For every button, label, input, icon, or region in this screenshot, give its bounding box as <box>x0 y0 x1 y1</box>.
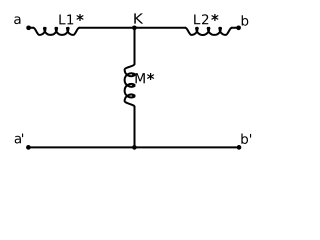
asterisk of M <box>147 73 154 80</box>
label b-prime <box>241 133 251 143</box>
label M <box>136 73 145 83</box>
label K <box>134 13 143 23</box>
asterisk of L2 <box>211 14 218 21</box>
inductor L1* <box>33 28 79 35</box>
terminal b dot <box>236 25 241 30</box>
terminal a dot <box>26 25 31 30</box>
wire top-left stub <box>29 27 34 29</box>
node K junction dot <box>132 25 137 30</box>
asterisk of L1 <box>76 14 83 21</box>
label a-prime <box>15 133 23 143</box>
label L1 <box>59 15 73 25</box>
label b <box>242 15 249 25</box>
label a <box>14 16 20 24</box>
terminal a' dot <box>26 145 31 150</box>
terminal b' dot <box>237 145 242 150</box>
wire top middle (L1 to K to L2) <box>79 27 185 29</box>
inductor L2* <box>185 28 232 35</box>
inductor M* <box>125 64 135 107</box>
wire M coil down to bottom <box>134 107 136 148</box>
junction dot bottom <box>132 145 137 150</box>
label L2 <box>194 14 208 24</box>
wire K down to M coil <box>134 28 136 64</box>
wire top-right stub <box>232 27 239 29</box>
wire bottom (a' to b') <box>28 146 239 148</box>
